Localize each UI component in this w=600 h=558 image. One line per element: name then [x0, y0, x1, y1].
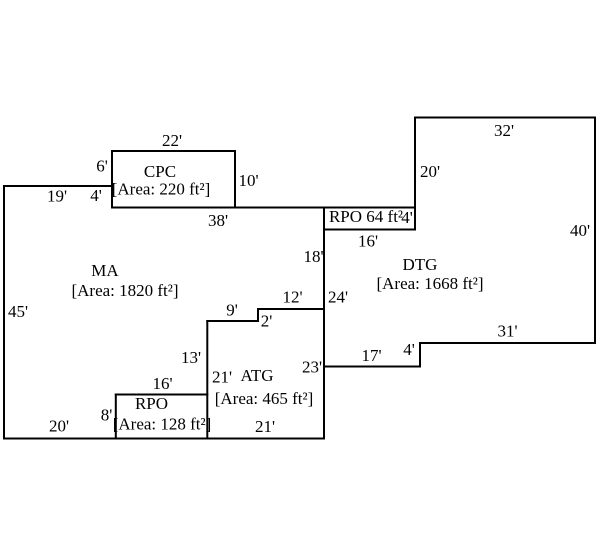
svg-text:DTG: DTG: [403, 255, 438, 274]
svg-text:18': 18': [303, 247, 323, 266]
wall: DTG left upper edge (20'): [414, 118, 416, 230]
wall: RPO strip bottom (16'): [324, 229, 415, 231]
svg-text:2': 2': [261, 312, 273, 331]
wall: step down (4'): [419, 343, 421, 367]
svg-text:40': 40': [570, 221, 590, 240]
wall: DTG top edge (32'): [415, 117, 595, 119]
svg-text:20': 20': [420, 162, 440, 181]
svg-text:ATG: ATG: [240, 366, 273, 385]
svg-text:[Area: 1668 ft²]: [Area: 1668 ft²]: [376, 274, 483, 293]
svg-text:8': 8': [101, 406, 113, 425]
svg-text:21': 21': [212, 368, 232, 387]
wall: ATG left edge (21'): [206, 321, 208, 439]
svg-text:20': 20': [49, 417, 69, 436]
svg-text:23': 23': [302, 358, 322, 377]
svg-text:[Area: 128 ft²]: [Area: 128 ft²]: [113, 415, 212, 434]
svg-text:9': 9': [226, 301, 238, 320]
wall: MA top-left edge (19'): [4, 185, 112, 187]
wall: 12' edge: [258, 308, 324, 310]
svg-text:4': 4': [403, 340, 415, 359]
svg-text:13': 13': [181, 348, 201, 367]
wall: RPO top edge (16'): [116, 394, 208, 396]
svg-text:RPO 64 ft²: RPO 64 ft²: [329, 207, 403, 226]
svg-text:19': 19': [47, 187, 67, 206]
wall: 2' step: [257, 309, 259, 321]
wall: MA left edge (45'): [3, 186, 5, 439]
svg-text:45': 45': [8, 302, 28, 321]
wall: CPC top edge (22'): [112, 150, 235, 152]
svg-text:[Area: 220 ft²]: [Area: 220 ft²]: [112, 180, 211, 199]
svg-text:RPO: RPO: [135, 394, 168, 413]
svg-text:10': 10': [238, 171, 258, 190]
svg-text:MA: MA: [91, 261, 119, 280]
svg-text:12': 12': [282, 288, 302, 307]
wall: CPC right edge (10'): [234, 151, 236, 208]
wall: CPC left edge (6'+4'): [111, 151, 113, 208]
svg-text:[Area: 1820 ft²]: [Area: 1820 ft²]: [71, 281, 178, 300]
wall: 17' edge: [324, 366, 420, 368]
svg-text:38': 38': [208, 211, 228, 230]
svg-text:[Area: 465 ft²]: [Area: 465 ft²]: [215, 389, 314, 408]
svg-text:CPC: CPC: [144, 162, 176, 181]
svg-text:32': 32': [494, 121, 514, 140]
wall: vertical x=324 (18'/24'/23'): [323, 208, 325, 439]
svg-text:6': 6': [96, 157, 108, 176]
svg-text:4': 4': [90, 186, 102, 205]
svg-text:17': 17': [361, 346, 381, 365]
svg-text:24': 24': [328, 288, 348, 307]
svg-text:16': 16': [152, 374, 172, 393]
svg-text:16': 16': [358, 232, 378, 251]
wall: DTG bottom edge (31'): [420, 342, 595, 344]
wall: 9' edge: [207, 320, 258, 322]
wall: 38' line + RPO strip top: [112, 207, 415, 209]
wall: RPO left edge (8'): [115, 395, 117, 439]
svg-text:4': 4': [401, 208, 413, 227]
svg-text:31': 31': [497, 322, 517, 341]
wall: DTG right edge (40'): [594, 118, 596, 344]
svg-text:21': 21': [255, 417, 275, 436]
svg-text:22': 22': [162, 131, 182, 150]
wall: bottom edge (20'+RPO+21'): [4, 438, 324, 440]
